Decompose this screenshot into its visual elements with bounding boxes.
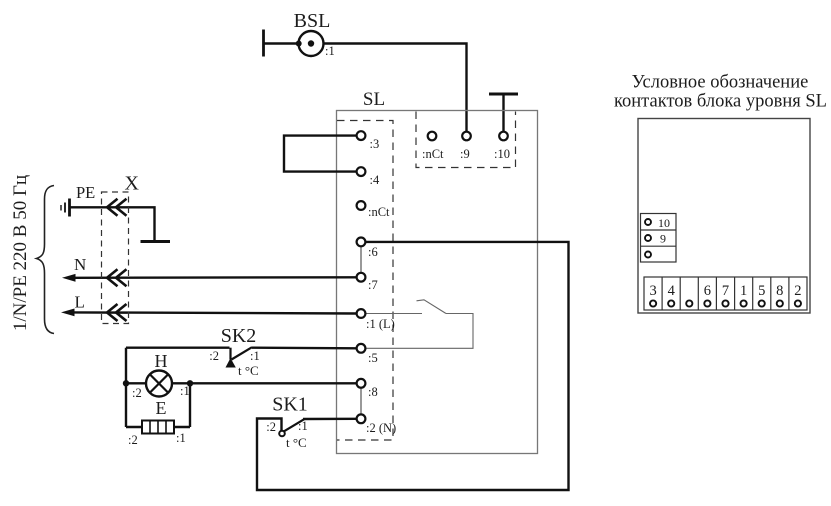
terminal :6 <box>357 238 378 260</box>
svg-text:8: 8 <box>776 283 783 299</box>
wire SK2 to :5 <box>252 347 357 350</box>
internal link :6-:7 <box>360 246 362 272</box>
terminal :2 (N) <box>357 414 397 435</box>
wire lamp row to :8 <box>126 382 357 384</box>
svg-text::2: :2 <box>128 433 138 447</box>
svg-text::2: :2 <box>209 349 219 363</box>
svg-text:PE: PE <box>76 183 95 202</box>
svg-text::2: :2 <box>266 420 276 434</box>
connector chevrons L <box>107 304 127 321</box>
svg-text::1: :1 <box>180 384 190 398</box>
legend contact row <box>644 277 807 310</box>
svg-text:SK1: SK1 <box>272 394 308 416</box>
wire BSL left lead <box>264 42 299 44</box>
connector X dashed box <box>102 173 140 324</box>
block SL outline <box>337 89 538 454</box>
svg-text::2 (N): :2 (N) <box>366 421 396 435</box>
internal relay contact :1(L)-:5 <box>366 300 474 349</box>
svg-text::1: :1 <box>176 431 186 445</box>
terminal :9 <box>460 132 471 161</box>
svg-text::8: :8 <box>368 385 378 399</box>
svg-text:X: X <box>125 173 140 195</box>
svg-text:4: 4 <box>668 283 676 299</box>
wire loop :6 around block to SK1 <box>257 242 569 490</box>
svg-text:2: 2 <box>794 283 801 299</box>
svg-text:N: N <box>74 255 86 274</box>
wire SK1 to :2(N) <box>303 418 357 421</box>
wire H-branch left vertical <box>125 348 127 427</box>
svg-text::7: :7 <box>368 278 378 292</box>
svg-text:E: E <box>156 398 167 418</box>
svg-text::10: :10 <box>494 147 510 161</box>
svg-text::5: :5 <box>368 351 378 365</box>
svg-text::9: :9 <box>460 147 470 161</box>
svg-text:контактов блока уровня SL: контактов блока уровня SL <box>614 92 827 112</box>
svg-text:SL: SL <box>363 89 385 110</box>
dashed terminal box (top) <box>416 112 516 168</box>
svg-text:10: 10 <box>658 216 670 230</box>
svg-text:Условное обозначение: Условное обозначение <box>632 73 809 93</box>
svg-text::nCt: :nCt <box>422 147 444 161</box>
terminal :7 <box>357 273 378 292</box>
lamp H <box>132 351 190 400</box>
PE terminal symbol <box>61 199 70 217</box>
svg-text:L: L <box>75 293 85 312</box>
terminal :10 <box>494 132 510 161</box>
terminal :3 <box>357 131 380 151</box>
svg-text:3: 3 <box>649 283 656 299</box>
internal link :8-:2 <box>360 388 362 415</box>
svg-text:7: 7 <box>722 283 729 299</box>
chassis ground bar <box>141 240 171 243</box>
wire heater row <box>126 426 190 428</box>
svg-text::nCt: :nCt <box>368 205 390 219</box>
svg-text:1: 1 <box>740 283 747 299</box>
svg-text::4: :4 <box>370 173 380 187</box>
sensor BSL <box>264 10 335 58</box>
legend title <box>614 73 827 112</box>
svg-text:BSL: BSL <box>294 10 331 32</box>
legend panel box <box>638 119 810 314</box>
svg-text::1: :1 <box>250 349 260 363</box>
terminal :8 <box>357 379 378 399</box>
thermal switch SK2 <box>209 325 259 378</box>
junction node left <box>123 380 129 386</box>
svg-text:t °C: t °C <box>286 435 307 450</box>
svg-text::1: :1 <box>298 419 308 433</box>
svg-text:SK2: SK2 <box>221 325 257 347</box>
antenna-bar above :10 <box>489 94 518 132</box>
svg-text:6: 6 <box>704 283 711 299</box>
svg-text:9: 9 <box>660 232 666 246</box>
jumper wire :3 to :4 <box>284 136 357 172</box>
thermal switch SK1 <box>266 394 308 451</box>
svg-text:5: 5 <box>758 283 765 299</box>
svg-text::2: :2 <box>132 386 142 400</box>
heater E <box>128 398 186 447</box>
terminal :5 <box>357 344 378 365</box>
svg-text::1 (L): :1 (L) <box>366 317 395 331</box>
wire N to :7 <box>74 276 357 279</box>
terminal :nCt <box>357 201 390 219</box>
svg-text::1: :1 <box>325 44 335 58</box>
wire right vertical (lamp/heater) <box>189 383 191 427</box>
svg-text::3: :3 <box>370 137 380 151</box>
legend mini table <box>641 214 677 263</box>
wire L to :1(L) <box>73 312 357 313</box>
connector chevrons N <box>107 269 127 286</box>
svg-text:1/N/PE 220 В 50 Гц: 1/N/PE 220 В 50 Гц <box>10 175 31 331</box>
terminal :nCt (top) <box>422 132 444 161</box>
supply brace <box>37 186 55 334</box>
wire H-branch top to SK2 <box>126 347 230 349</box>
junction node right <box>187 380 193 386</box>
wire PE <box>70 207 155 240</box>
svg-text:t °C: t °C <box>238 363 259 378</box>
dashed terminal strip (left) <box>337 121 393 441</box>
terminal :4 <box>357 167 380 187</box>
svg-text::6: :6 <box>368 245 378 259</box>
terminal :1 (L) <box>357 309 395 331</box>
svg-text:H: H <box>155 351 168 371</box>
arrow N <box>62 274 76 282</box>
arrow L <box>61 309 75 317</box>
connector chevrons PE <box>107 199 127 216</box>
wire BSL to terminal :9 <box>324 44 467 132</box>
